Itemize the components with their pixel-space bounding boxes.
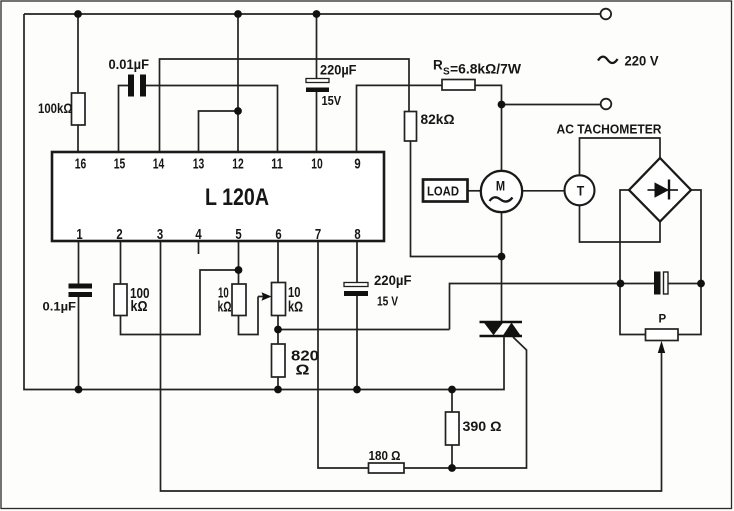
svg-text:6: 6 — [275, 226, 281, 243]
svg-text:T: T — [577, 183, 585, 199]
svg-text:AC TACHOMETER: AC TACHOMETER — [557, 123, 662, 137]
svg-text:180 Ω: 180 Ω — [369, 448, 401, 463]
svg-text:8: 8 — [354, 226, 360, 243]
svg-text:5: 5 — [235, 226, 241, 243]
svg-text:1: 1 — [76, 226, 82, 243]
svg-text:0.1µF: 0.1µF — [43, 300, 77, 314]
svg-text:M: M — [496, 179, 505, 194]
svg-text:220 V: 220 V — [625, 53, 660, 69]
svg-text:LOAD: LOAD — [427, 184, 459, 199]
svg-text:15: 15 — [114, 156, 126, 173]
svg-text:16: 16 — [75, 156, 87, 173]
svg-text:15 V: 15 V — [377, 295, 399, 309]
svg-text:Ω: Ω — [296, 363, 310, 379]
svg-text:390 Ω: 390 Ω — [463, 418, 502, 434]
svg-text:9: 9 — [354, 156, 360, 173]
svg-text:0.01µF: 0.01µF — [109, 56, 150, 72]
svg-text:220µF: 220µF — [374, 272, 412, 288]
svg-text:R: R — [433, 58, 443, 73]
svg-text:13: 13 — [193, 156, 205, 173]
svg-text:14: 14 — [153, 156, 165, 173]
svg-text:=6.8kΩ/7W: =6.8kΩ/7W — [450, 61, 522, 77]
svg-text:P: P — [659, 314, 667, 326]
svg-text:kΩ: kΩ — [131, 299, 148, 315]
svg-text:11: 11 — [271, 156, 283, 173]
svg-text:kΩ: kΩ — [218, 300, 232, 316]
svg-text:4: 4 — [195, 226, 202, 243]
svg-text:S: S — [443, 67, 450, 78]
svg-text:7: 7 — [315, 226, 321, 243]
svg-text:2: 2 — [116, 226, 122, 243]
svg-text:15V: 15V — [322, 94, 342, 108]
svg-text:L 120A: L 120A — [205, 184, 269, 211]
svg-text:82kΩ: 82kΩ — [421, 112, 455, 127]
svg-text:kΩ: kΩ — [288, 300, 303, 316]
svg-text:12: 12 — [232, 156, 244, 173]
svg-text:100kΩ: 100kΩ — [38, 100, 73, 116]
svg-text:3: 3 — [157, 226, 163, 243]
svg-text:220µF: 220µF — [320, 62, 357, 78]
svg-text:10: 10 — [311, 156, 323, 173]
